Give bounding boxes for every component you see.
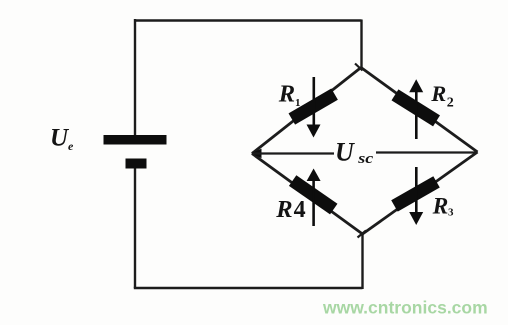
arrow on R2 (up): [409, 79, 423, 139]
label R3: [432, 193, 454, 219]
label R1: [278, 80, 301, 109]
label U_sc: [335, 138, 374, 167]
svg-text:e: e: [68, 139, 74, 153]
svg-text:U: U: [50, 125, 70, 152]
arrow on R3 (down): [409, 167, 423, 225]
resistor R1 bar: [289, 89, 338, 125]
label R2: [430, 81, 454, 111]
svg-text:2: 2: [447, 95, 454, 110]
wire: bridge edge top-right: [361, 68, 478, 153]
wire: output line right segment: [376, 151, 477, 153]
svg-text:www.cntronics.com: www.cntronics.com: [322, 298, 488, 318]
node: left vertex junction wedge: [251, 149, 261, 159]
svg-text:R: R: [275, 196, 292, 223]
wire: right vertical from top wire to bridge top node: [360, 20, 362, 69]
resistor R3 bar: [391, 176, 440, 211]
svg-text:1: 1: [295, 97, 301, 109]
arrow on R1 (down): [307, 77, 321, 138]
label R4: [275, 196, 305, 223]
svg-text:R: R: [278, 80, 295, 107]
node: top vertex tick: [355, 64, 363, 71]
wire: top horizontal: [134, 19, 362, 21]
wire: bridge edge bottom-right: [363, 152, 478, 234]
wire: bridge edge bottom-left: [252, 154, 363, 235]
label U_e: [50, 125, 74, 154]
svg-text:R: R: [430, 81, 446, 106]
wire: left vertical between top wire and battery: [134, 19, 136, 136]
wire: output line left segment: [252, 152, 334, 154]
battery U_e long plate: [104, 135, 167, 145]
svg-text:3: 3: [448, 206, 454, 218]
svg-text:R: R: [432, 193, 449, 219]
resistor R2 bar: [392, 89, 440, 126]
wire: bridge edge top-left: [252, 68, 361, 154]
svg-text:4: 4: [294, 197, 306, 223]
svg-text:U: U: [335, 138, 355, 167]
wire: left vertical below battery: [134, 169, 136, 289]
node: bottom vertex tick: [358, 231, 367, 238]
wire: vertical from bridge bottom node to bottom wire: [361, 233, 363, 289]
svg-text:sc: sc: [357, 151, 374, 167]
battery U_e short plate: [126, 159, 147, 169]
arrow on R4 (up): [307, 169, 321, 227]
resistor R4 bar: [289, 175, 338, 214]
wire: bottom horizontal: [134, 287, 363, 289]
